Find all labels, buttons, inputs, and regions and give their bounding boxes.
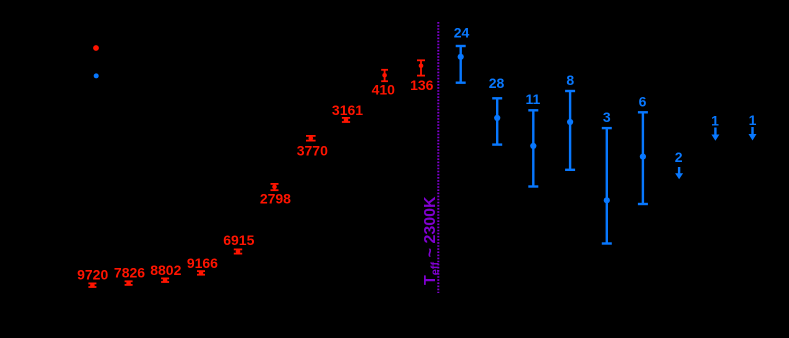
- svg-text:1: 1: [749, 112, 757, 128]
- svg-text:8: 8: [566, 72, 574, 88]
- svg-text:11: 11: [525, 91, 540, 107]
- svg-text:28: 28: [489, 75, 505, 91]
- svg-text:9720: 9720: [77, 266, 108, 282]
- svg-text:136: 136: [410, 77, 434, 93]
- svg-text:3161: 3161: [332, 102, 363, 118]
- svg-text:3770: 3770: [297, 143, 328, 159]
- svg-text:24: 24: [454, 25, 470, 41]
- svg-text:2: 2: [675, 149, 683, 165]
- svg-text:2798: 2798: [260, 190, 291, 206]
- svg-text:1: 1: [711, 112, 719, 128]
- svg-text:9166: 9166: [187, 255, 218, 271]
- svg-text:Teff ~ 2300K: Teff ~ 2300K: [422, 196, 442, 285]
- svg-text:410: 410: [372, 82, 396, 98]
- svg-text:8802: 8802: [150, 262, 181, 278]
- svg-text:6: 6: [639, 94, 647, 110]
- svg-text:6915: 6915: [223, 232, 254, 248]
- svg-text:3: 3: [603, 109, 611, 125]
- svg-text:7826: 7826: [114, 265, 145, 281]
